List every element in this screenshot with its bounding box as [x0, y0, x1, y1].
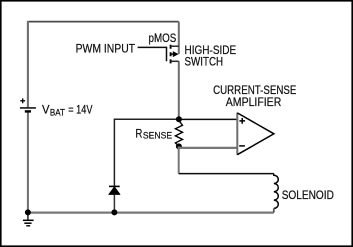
inductor solenoid [274, 174, 279, 213]
ground [23, 213, 34, 226]
wire: battery positive up to top rail [27, 21, 29, 108]
battery VBAT [20, 98, 36, 111]
svg-text:BAT: BAT [50, 108, 66, 118]
node: RSENSE bottom junction [176, 143, 182, 149]
label PWM INPUT [76, 42, 136, 56]
label VBAT = 14V [42, 102, 93, 117]
op-amp U1 current-sense amplifier [237, 113, 274, 155]
label pMOS [149, 31, 177, 45]
svg-text:SENSE: SENSE [143, 130, 172, 140]
pMOS transistor [171, 22, 179, 120]
wire: top rail from battery to pMOS source [29, 21, 179, 23]
label CURRENT-SENSE AMPLIFIER [213, 83, 296, 109]
wire: node A (diode cathode up and across to RSENSE top) [114, 119, 178, 186]
svg-text:SWITCH: SWITCH [185, 55, 224, 69]
svg-text:AMPLIFIER: AMPLIFIER [226, 95, 282, 109]
svg-text:R: R [135, 127, 142, 141]
label RSENSE [135, 127, 172, 141]
wire: RSENSE bottom to op-amp - input [180, 147, 238, 149]
svg-text:= 14V: = 14V [68, 102, 92, 116]
wire: RSENSE top to op-amp + input [179, 118, 238, 120]
svg-text:V: V [42, 102, 50, 116]
wire: RSENSE bottom down and across to solenoid [179, 146, 274, 173]
svg-text:pMOS: pMOS [149, 31, 177, 45]
node: battery ground junction [25, 209, 31, 215]
svg-text:PWM INPUT: PWM INPUT [76, 42, 136, 56]
resistor RSENSE [175, 119, 182, 146]
label SOLENOID [282, 188, 334, 202]
wire: battery negative down to ground rail [27, 111, 29, 212]
diode D1 freewheeling [109, 186, 120, 212]
label HIGH-SIDE SWITCH [185, 43, 237, 68]
wire: gate lead from PWM input [138, 47, 167, 61]
node: diode anode on ground rail [111, 209, 117, 215]
node: RSENSE top junction [176, 116, 182, 122]
svg-text:SOLENOID: SOLENOID [282, 188, 334, 202]
wire: bottom ground rail [28, 212, 274, 214]
